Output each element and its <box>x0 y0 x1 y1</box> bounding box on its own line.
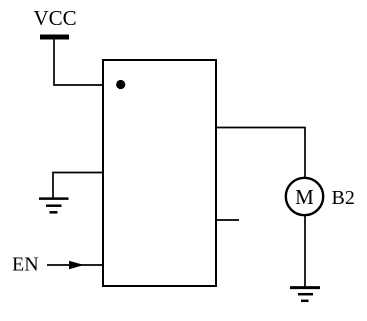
wire EN input <box>47 264 103 266</box>
wire U1 to motor <box>216 128 305 178</box>
IC U1 <box>103 60 216 286</box>
EN arrowhead <box>69 261 84 269</box>
svg-text:B2: B2 <box>332 187 355 209</box>
pin stub <box>216 219 239 221</box>
ground (bottom right) <box>290 288 320 301</box>
wire U1 to left ground <box>53 173 103 199</box>
pin marker dot <box>116 80 125 89</box>
VCC power symbol <box>40 35 69 40</box>
wire motor to ground <box>304 216 306 288</box>
ground (left) <box>39 199 69 213</box>
motor B2 <box>286 178 323 215</box>
wire VCC to U1 <box>54 40 103 86</box>
svg-text:VCC: VCC <box>34 6 77 30</box>
svg-text:M: M <box>295 185 314 209</box>
svg-text:EN: EN <box>12 254 39 276</box>
